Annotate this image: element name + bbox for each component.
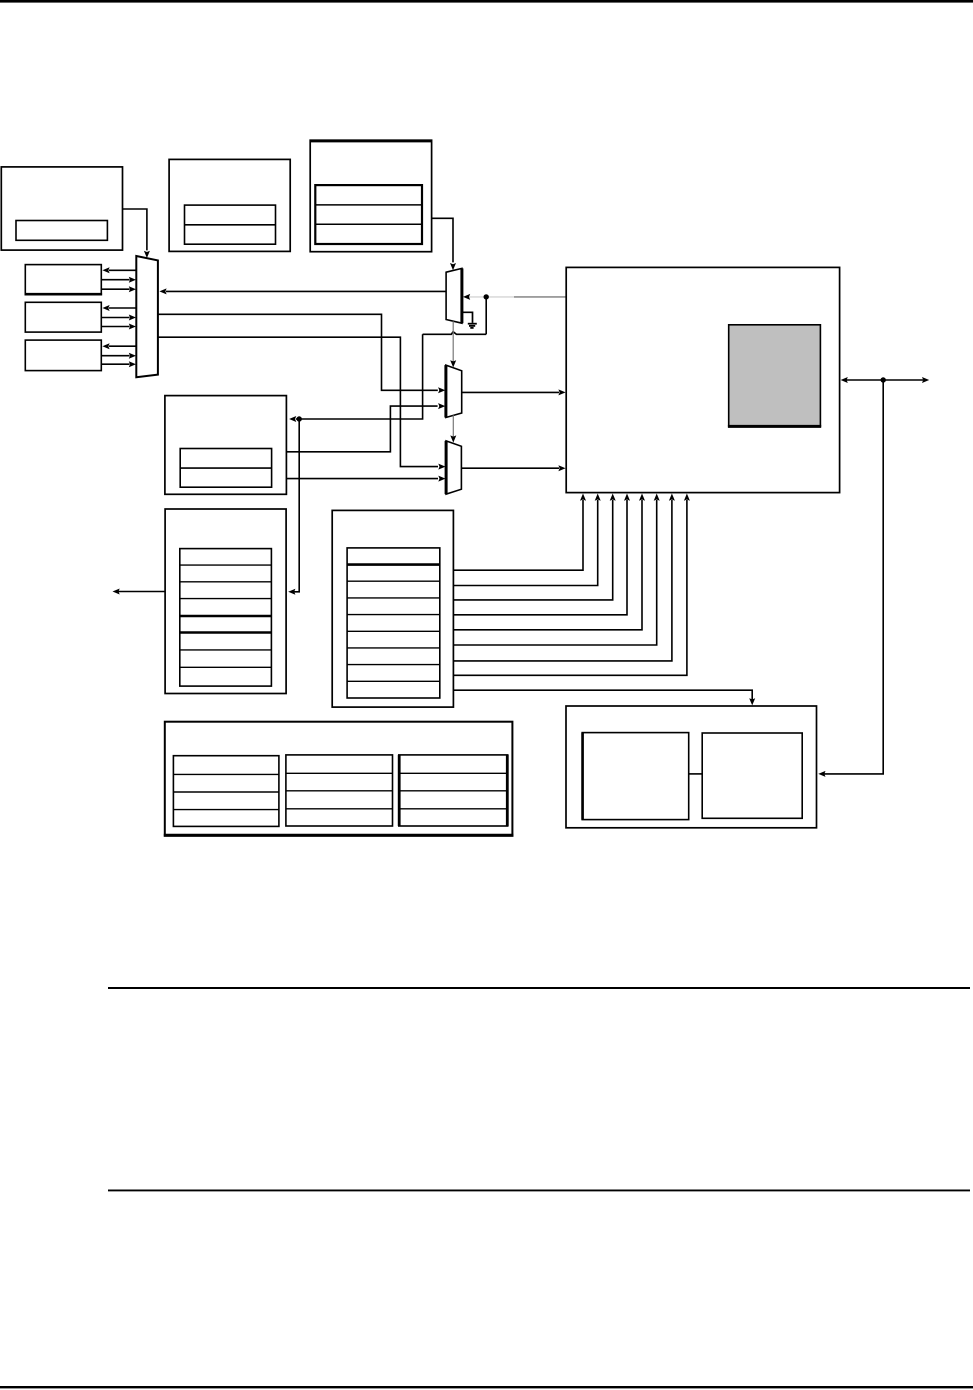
- box E: left register file: [165, 509, 286, 694]
- wire box A to mux M1 top: [123, 209, 147, 250]
- gray wire mux M2 bottom to mux M3 top: [452, 321, 454, 362]
- box C inner 3-row register: [315, 185, 422, 244]
- box H inner table 1: [173, 756, 279, 827]
- mux M3: [446, 365, 462, 417]
- gray wire from processor box to mux M2: [514, 296, 566, 298]
- wire bus junction down to box G right input: [824, 380, 883, 774]
- wire mux M1 output 1 to mux M3 input 1: [158, 314, 438, 390]
- horizontal rule 1: [108, 987, 970, 989]
- wire box D output 1 to mux M3 input 2: [286, 406, 437, 452]
- box C: third top block: [310, 140, 431, 252]
- gray core box inside processor: [729, 325, 821, 426]
- box H: bottom-left block: [165, 722, 513, 836]
- wire junction down to box E right input: [294, 419, 299, 592]
- box H inner table 2: [286, 755, 393, 826]
- gray wire mux M3 bottom to mux M4 top: [452, 415, 454, 437]
- junction node at box D wire: [297, 416, 302, 421]
- ground symbol at mux M2: [462, 312, 473, 323]
- mux M4: [446, 441, 461, 494]
- box A: top-left block: [1, 167, 122, 250]
- left box 3: [25, 340, 101, 371]
- wires left box2 to mux M1: [109, 307, 136, 309]
- mux M2 (top right mux, faces left): [446, 268, 462, 323]
- wire mux M1 output 2 to mux M4 input 1: [158, 337, 438, 466]
- junction node at gray wire: [484, 294, 489, 299]
- box F inner 9-row register stack: [347, 548, 440, 698]
- wires left box1 to mux M1: [109, 269, 136, 271]
- box G inner block 2: [702, 733, 802, 818]
- box D: register block: [165, 396, 287, 495]
- bottom border bar: [0, 1386, 973, 1388]
- box G inner block 1: [582, 733, 689, 820]
- junction node on bus: [881, 377, 886, 382]
- wire mux M3 output to processor box: [462, 391, 559, 393]
- left box 2: [25, 302, 101, 332]
- processor box (large block): [566, 267, 839, 492]
- wire box D output 2 to mux M4 input 2: [286, 478, 438, 480]
- horizontal rule 2: [108, 1189, 970, 1191]
- bidirectional bus at processor right edge: [846, 379, 923, 381]
- box H inner table 3: [399, 755, 508, 826]
- box G: bottom-right block: [566, 706, 817, 828]
- connector between box G inner blocks: [689, 773, 703, 775]
- wire box C to mux M2 top: [432, 218, 453, 262]
- box B inner 2-row register: [185, 205, 276, 244]
- wires left box3 to mux M1: [109, 345, 136, 347]
- wire mux M2 output to mux M1 right input: [166, 290, 446, 292]
- mux M1 (large left mux): [136, 256, 158, 377]
- wire mux M4 output to processor box: [461, 467, 559, 469]
- box F: middle register file: [332, 510, 453, 707]
- top border bar: [0, 0, 973, 3]
- wire junction down and left to box D (with hop): [485, 297, 487, 334]
- box E inner 8-row register stack: [180, 549, 272, 687]
- box B: second top block: [169, 159, 290, 251]
- wire box F bottom output to box G top: [453, 690, 752, 699]
- box D inner 2-row register: [180, 449, 271, 488]
- left box 1: [25, 265, 101, 295]
- wire box E output to left: [119, 591, 166, 593]
- box A inner register: [16, 221, 107, 241]
- wires box F outputs up into processor box bottom: [453, 500, 583, 570]
